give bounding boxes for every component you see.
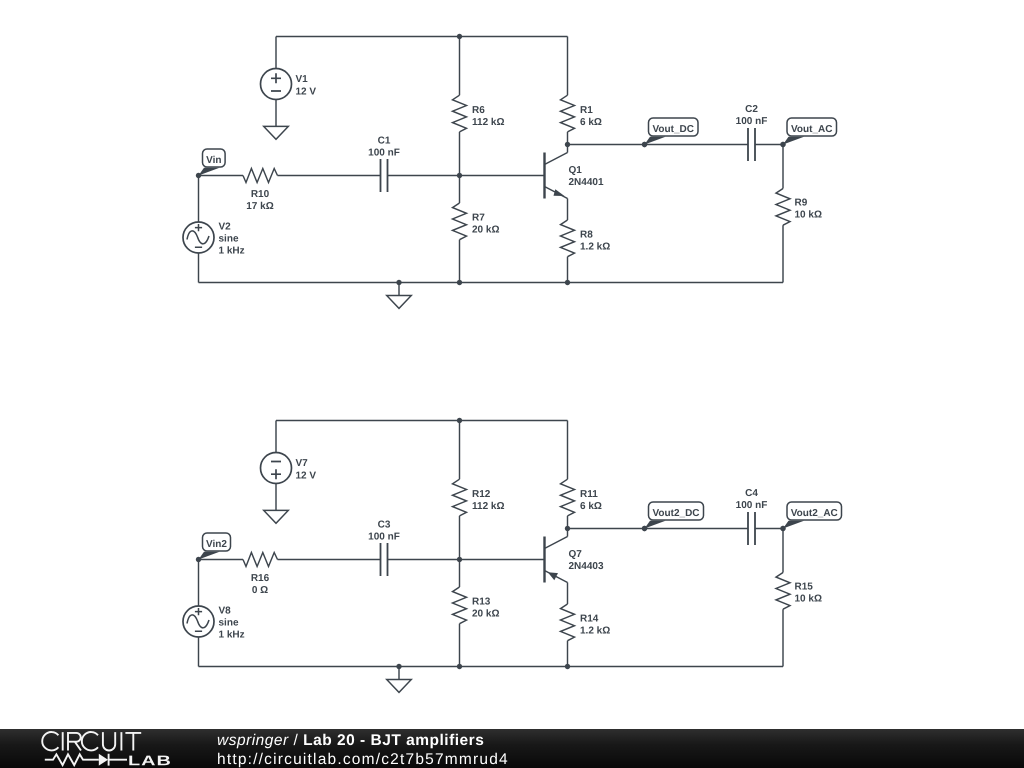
svg-text:C4: C4	[745, 488, 758, 499]
label V2 value	[219, 222, 245, 257]
wire collector node to C2	[568, 144, 749, 146]
wire C2 to Vout_AC node	[755, 144, 783, 146]
wire top rail to R11	[567, 421, 569, 480]
svg-text:C1: C1	[378, 136, 391, 147]
footer title and url	[190, 729, 1024, 768]
node junction ground rail junction	[396, 280, 401, 285]
wire C3 to base of Q7	[388, 559, 545, 561]
svg-text:17 kΩ: 17 kΩ	[246, 201, 273, 212]
logo diode arrow	[99, 754, 108, 766]
resistor R8	[561, 220, 575, 257]
svg-text:R15: R15	[795, 582, 814, 593]
label C4 value	[736, 488, 768, 511]
capacitor C2	[748, 128, 755, 161]
svg-text:100 nF: 100 nF	[736, 500, 768, 511]
node junction base / divider junction	[457, 173, 462, 178]
wire R16 to C3	[278, 559, 381, 561]
svg-text:R12: R12	[472, 489, 491, 500]
resistor R16	[243, 553, 278, 567]
label R8 value	[580, 230, 610, 253]
label R15 value	[795, 582, 822, 605]
label R9 value	[795, 198, 822, 221]
svg-text:20 kΩ: 20 kΩ	[472, 609, 499, 620]
node junction Vout2_AC node	[780, 526, 785, 531]
label V7 value	[296, 458, 317, 482]
wire R11 to collector node	[567, 516, 569, 529]
svg-text:6 kΩ: 6 kΩ	[580, 501, 602, 512]
label V8 value	[219, 606, 245, 641]
node junction collector node	[565, 142, 570, 147]
svg-text:20 kΩ: 20 kΩ	[472, 225, 499, 236]
svg-text:R9: R9	[795, 198, 808, 209]
wire V1 positive lead	[275, 37, 277, 69]
logo resistor-diode strip	[45, 754, 127, 766]
svg-text:R1: R1	[580, 105, 593, 116]
footer bar	[0, 729, 1024, 768]
svg-text:sine: sine	[219, 234, 239, 245]
svg-text:112 kΩ: 112 kΩ	[472, 501, 505, 512]
resistor R15	[776, 573, 790, 610]
svg-text:1.2 kΩ: 1.2 kΩ	[580, 626, 610, 637]
node junction collector node	[565, 526, 570, 531]
wire amp2 bottom ground rail	[199, 666, 784, 668]
node junction ground rail junction	[396, 664, 401, 669]
resistor R7	[453, 203, 467, 240]
svg-text:0 Ω: 0 Ω	[252, 585, 268, 596]
node junction divider column / ground rail junction	[457, 280, 462, 285]
label R6 value	[472, 105, 505, 128]
wire R8 to bottom rail	[567, 257, 569, 283]
capacitor C4	[748, 512, 755, 545]
node junction emitter column / ground rail junction	[565, 280, 570, 285]
node junction divider column / ground rail junction	[457, 664, 462, 669]
svg-text:100 nF: 100 nF	[368, 148, 400, 159]
wire Vin node to V2	[198, 176, 200, 223]
svg-text:R14: R14	[580, 614, 599, 625]
wire collector stub of Q1	[567, 145, 569, 153]
wire emitter of Q7 to R14	[567, 583, 569, 605]
resistor R12	[453, 479, 467, 516]
wire ground stem	[398, 667, 400, 680]
node junction Vout_DC node	[642, 142, 647, 147]
resistor R10	[243, 169, 278, 183]
node flag Vin2	[196, 533, 231, 562]
capacitor C1	[381, 159, 388, 192]
node junction top rail / R6 junction	[457, 34, 462, 39]
svg-text:100 nF: 100 nF	[736, 116, 768, 127]
wire amp1 bottom ground rail	[199, 282, 784, 284]
wire base junction to R13	[459, 560, 461, 588]
node flag Vout_DC	[642, 118, 698, 147]
resistor R11	[561, 479, 575, 516]
label R7 value	[472, 213, 499, 236]
svg-text:R8: R8	[580, 230, 593, 241]
wire R1 to collector node	[567, 132, 569, 145]
wire R10 to C1	[278, 175, 381, 177]
svg-text:C2: C2	[745, 104, 758, 115]
wire amp1 top supply rail	[276, 36, 568, 38]
svg-text:R16: R16	[251, 573, 270, 584]
node junction base / divider junction	[457, 557, 462, 562]
voltage source V1 (DC)	[261, 69, 292, 100]
wire Vin node to R10	[199, 175, 244, 177]
ground below V7	[264, 510, 289, 523]
svg-text:1 kHz: 1 kHz	[219, 630, 245, 641]
wire V7 positive lead	[275, 421, 277, 453]
node flag Vout_AC	[780, 118, 836, 147]
resistor R14	[561, 604, 575, 641]
node flag Vout2_AC	[780, 502, 841, 531]
wire R9 to bottom rail	[782, 225, 784, 282]
svg-text:Q7: Q7	[569, 549, 583, 560]
voltage source V7 (DC)	[261, 453, 292, 484]
wire R13 to bottom rail	[459, 624, 461, 667]
svg-text:V7: V7	[296, 458, 309, 469]
svg-text:10 kΩ: 10 kΩ	[795, 594, 822, 605]
wire top rail to R12	[459, 421, 461, 480]
svg-text:1.2 kΩ: 1.2 kΩ	[580, 242, 610, 253]
label R16 value	[251, 573, 270, 596]
logo word LAB	[129, 756, 170, 766]
CircuitLab logo	[0, 729, 190, 768]
node junction emitter column / ground rail junction	[565, 664, 570, 669]
svg-text:2N4403: 2N4403	[569, 561, 604, 572]
wire V1 negative lead to ground	[275, 100, 277, 127]
svg-text:V2: V2	[219, 222, 232, 233]
ground main	[387, 296, 412, 309]
wire V8 to bottom rail	[198, 637, 200, 667]
wire collector node to C4	[568, 528, 749, 530]
svg-text:R7: R7	[472, 213, 485, 224]
label C2 value	[736, 104, 768, 127]
label R14 value	[580, 614, 610, 637]
voltage source V8 (sine)	[183, 606, 214, 637]
svg-text:Vout2_AC: Vout2_AC	[791, 508, 838, 519]
resistor R13	[453, 587, 467, 624]
wire C1 to base of Q1	[388, 175, 545, 177]
svg-text:Vout2_DC: Vout2_DC	[652, 508, 699, 519]
transistor Q1 2N4401	[545, 153, 568, 199]
resistor R9	[776, 189, 790, 226]
wire R7 to bottom rail	[459, 240, 461, 283]
svg-text:112 kΩ: 112 kΩ	[472, 117, 505, 128]
svg-text:sine: sine	[219, 618, 239, 629]
svg-text:V1: V1	[296, 74, 309, 85]
label R13 value	[472, 597, 499, 620]
svg-text:Q1: Q1	[569, 165, 583, 176]
wire amp2 top supply rail	[276, 420, 568, 422]
svg-text:Vout_AC: Vout_AC	[791, 124, 832, 135]
wire top rail to R6	[459, 37, 461, 96]
label R1 value	[580, 105, 602, 128]
svg-text:100 nF: 100 nF	[368, 532, 400, 543]
label R12 value	[472, 489, 505, 512]
logo word CIRCUIT	[42, 732, 141, 751]
transistor Q7 2N4403	[545, 537, 568, 583]
wire base junction to R7	[459, 176, 461, 204]
svg-text:http://circuitlab.com/c2t7b57m: http://circuitlab.com/c2t7b57mmrud4	[217, 751, 509, 768]
wire R6 to base junction	[459, 132, 461, 176]
svg-text:12 V: 12 V	[296, 471, 317, 482]
wire R15 to bottom rail	[782, 609, 784, 666]
node junction top rail / R12 junction	[457, 418, 462, 423]
node flag Vout2_DC	[642, 502, 704, 531]
wire emitter of Q1 to R8	[567, 199, 569, 221]
node flag Vin	[196, 149, 225, 178]
wire top rail to R1	[567, 37, 569, 96]
ground main	[387, 680, 412, 693]
svg-text:R13: R13	[472, 597, 491, 608]
svg-text:2N4401: 2N4401	[569, 177, 604, 188]
resistor R1	[561, 95, 575, 132]
wire Vout_AC node to R9	[782, 145, 784, 189]
resistor R6	[453, 95, 467, 132]
svg-text:R6: R6	[472, 105, 485, 116]
svg-text:R10: R10	[251, 189, 270, 200]
label C3 value	[368, 520, 400, 543]
label V1 value	[296, 74, 317, 98]
label R10 value	[246, 189, 273, 212]
wire Vin2 node to R16	[199, 559, 244, 561]
svg-text:wspringer / Lab 20 - BJT ampli: wspringer / Lab 20 - BJT amplifiers	[217, 732, 484, 749]
wire ground stem	[398, 283, 400, 296]
wire V2 to bottom rail	[198, 253, 200, 283]
ground below V1	[264, 126, 289, 139]
svg-text:Vout_DC: Vout_DC	[653, 124, 694, 135]
wire C4 to Vout2_AC node	[755, 528, 783, 530]
wire Vin2 node to V8	[198, 560, 200, 607]
svg-text:6 kΩ: 6 kΩ	[580, 117, 602, 128]
wire R14 to bottom rail	[567, 641, 569, 667]
svg-text:C3: C3	[378, 520, 391, 531]
svg-text:V8: V8	[219, 606, 232, 617]
label C1 value	[368, 136, 400, 159]
wire Vout2_AC node to R15	[782, 529, 784, 573]
wire collector stub of Q7	[567, 529, 569, 537]
svg-text:Vin2: Vin2	[206, 539, 227, 550]
node junction Vout2_DC node	[642, 526, 647, 531]
voltage source V2 (sine)	[183, 222, 214, 253]
label R11 value	[580, 489, 602, 512]
wire V7 negative lead to ground	[275, 484, 277, 511]
label Q1 value	[569, 165, 604, 188]
label Q7 value	[569, 549, 604, 572]
node junction Vout_AC node	[780, 142, 785, 147]
capacitor C3	[381, 543, 388, 576]
svg-text:R11: R11	[580, 489, 598, 500]
svg-text:Vin: Vin	[206, 155, 221, 166]
svg-text:10 kΩ: 10 kΩ	[795, 210, 822, 221]
svg-text:12 V: 12 V	[296, 87, 317, 98]
wire R12 to base junction	[459, 516, 461, 560]
svg-text:1 kHz: 1 kHz	[219, 246, 245, 257]
